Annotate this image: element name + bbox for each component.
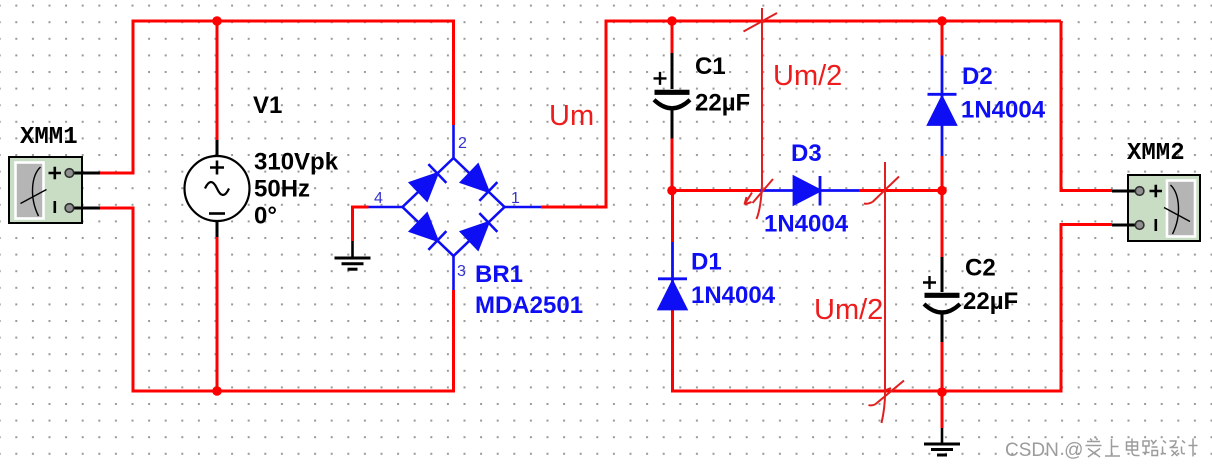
svg-text:Um/2: Um/2 <box>773 60 842 92</box>
svg-text:Um/2: Um/2 <box>814 294 883 326</box>
svg-text:1: 1 <box>511 190 520 207</box>
svg-text:C2: C2 <box>965 255 996 282</box>
svg-text:D2: D2 <box>962 63 993 90</box>
svg-text:1N4004: 1N4004 <box>691 282 776 309</box>
bridge rectifier BR1 <box>369 125 542 290</box>
wire V1 top lead to top rail <box>216 21 219 140</box>
wire D1 top lead <box>671 191 674 243</box>
capacitor C2 <box>923 257 960 342</box>
svg-text:1N4004: 1N4004 <box>764 211 849 238</box>
junction node D2-D3-C2 <box>937 186 947 196</box>
diode D2 <box>928 56 957 157</box>
svg-text:D1: D1 <box>691 249 722 276</box>
diode D3 <box>760 176 859 206</box>
wire C1 top lead <box>671 21 674 53</box>
svg-text:BR1: BR1 <box>475 261 523 288</box>
wire C1 bottom lead <box>671 139 674 191</box>
multimeter XMM1 <box>9 157 100 223</box>
svg-text:4: 4 <box>374 190 383 207</box>
junction node bottom V1 <box>212 386 222 396</box>
junction node top D2 <box>937 16 947 26</box>
svg-text:2: 2 <box>458 135 467 152</box>
annotation left measure line <box>744 8 778 219</box>
ground at C2 <box>924 428 960 455</box>
wire XMM1 minus lead down left side along bottom to BR1 pin3 <box>100 208 454 391</box>
watermark chinese glyphs <box>1086 438 1198 457</box>
junction node C1-D1-D3 <box>667 186 677 196</box>
wire C2 top lead <box>941 191 944 258</box>
junction node bottom C2 <box>937 387 947 397</box>
annotation right measure line <box>864 162 904 423</box>
svg-text:1N4004: 1N4004 <box>961 97 1046 124</box>
wire D2 bottom lead <box>941 156 944 191</box>
svg-text:310Vpk: 310Vpk <box>254 149 339 176</box>
junction node top V1 <box>212 16 222 26</box>
svg-text:CSDN @: CSDN @ <box>1005 440 1083 461</box>
svg-text:V1: V1 <box>253 92 282 119</box>
ground at BR1 pin4 <box>335 241 371 269</box>
svg-text:50Hz: 50Hz <box>254 176 310 203</box>
wire D2 top lead <box>941 21 944 56</box>
wire V1 bottom lead to bottom rail <box>216 237 219 391</box>
svg-text:0°: 0° <box>254 203 277 230</box>
diode D1 <box>658 242 687 310</box>
wire top-left: XMM1 plus lead up to top rail over to BR1 pin2 <box>100 21 454 173</box>
svg-text:22µF: 22µF <box>695 90 750 117</box>
wire C2 bottom lead to ground stub <box>941 342 944 428</box>
svg-text:3: 3 <box>457 263 466 280</box>
svg-text:C1: C1 <box>695 53 726 80</box>
svg-text:XMM2: XMM2 <box>1127 140 1185 167</box>
wire middle rail right of D3 <box>859 189 942 192</box>
wire XMM2 plus lead from top rail <box>1061 21 1112 191</box>
svg-text:22µF: 22µF <box>963 288 1018 315</box>
wire D1 bottom lead along bottom rail up to XMM2 minus lead <box>673 225 1113 392</box>
wire middle rail left of D3 <box>672 189 760 192</box>
svg-text:Um: Um <box>549 100 594 132</box>
wire BR1 pin1 up to top-right rail <box>541 21 1061 207</box>
AC source V1 <box>185 140 250 237</box>
junction node top C1 <box>667 16 677 26</box>
multimeter XMM2 <box>1112 175 1200 241</box>
svg-text:D3: D3 <box>791 140 822 167</box>
capacitor C1 <box>654 53 691 139</box>
svg-text:MDA2501: MDA2501 <box>475 292 583 319</box>
wire BR1 pin4 to ground <box>353 207 369 241</box>
svg-text:XMM1: XMM1 <box>20 124 78 151</box>
